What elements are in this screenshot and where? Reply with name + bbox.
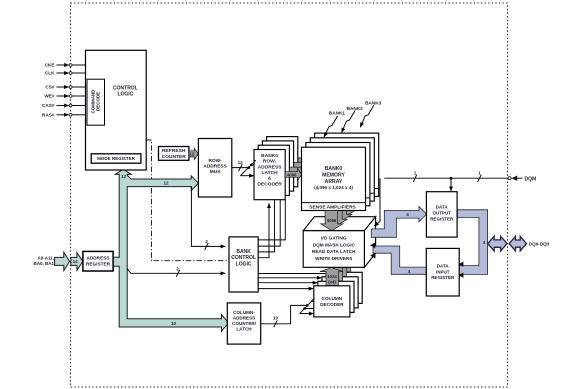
svg-text:READ DATA LATCH: READ DATA LATCH: [312, 249, 356, 254]
svg-text:WRITE DRIVERS: WRITE DRIVERS: [315, 256, 352, 261]
svg-text:SENSE AMPLIFIERS: SENSE AMPLIFIERS: [309, 205, 356, 211]
svg-text:4: 4: [406, 212, 409, 217]
svg-text:DATA: DATA: [437, 264, 450, 269]
svg-text:LOGIC: LOGIC: [117, 92, 133, 98]
svg-text:DECODE: DECODE: [96, 92, 101, 111]
svg-text:12: 12: [189, 152, 195, 157]
svg-text:BA0, BA1: BA0, BA1: [33, 261, 54, 266]
svg-text:10: 10: [273, 315, 279, 320]
svg-text:4: 4: [408, 269, 411, 274]
svg-text:BANK0: BANK0: [325, 166, 343, 172]
svg-text:BANK0: BANK0: [261, 153, 278, 159]
svg-text:CAS#: CAS#: [42, 103, 55, 108]
svg-text:COUNTER: COUNTER: [162, 154, 187, 160]
svg-text:LOGIC: LOGIC: [236, 261, 252, 267]
svg-text:ADDRESS: ADDRESS: [233, 316, 255, 321]
svg-text:BANK1: BANK1: [329, 111, 346, 116]
svg-text:12: 12: [121, 174, 127, 179]
svg-text:CKE: CKE: [45, 63, 55, 68]
svg-text:CS#: CS#: [45, 85, 55, 90]
svg-text:DQM: DQM: [525, 176, 537, 182]
svg-text:OUTPUT: OUTPUT: [432, 211, 451, 216]
svg-text:REGISTER: REGISTER: [86, 262, 111, 267]
svg-text:COMMAND: COMMAND: [90, 89, 95, 114]
svg-text:ADDRESS: ADDRESS: [203, 163, 227, 169]
svg-text:ARRAY: ARRAY: [325, 179, 343, 185]
svg-text:4: 4: [483, 240, 486, 245]
svg-text:RAS#: RAS#: [42, 113, 55, 118]
svg-text:&: &: [268, 176, 272, 182]
svg-text:4096: 4096: [287, 173, 297, 178]
svg-text:COLUMN: COLUMN: [322, 296, 343, 301]
svg-text:COUNTER/: COUNTER/: [232, 321, 257, 326]
svg-text:BANK2: BANK2: [347, 106, 364, 111]
svg-text:CLK: CLK: [45, 71, 55, 76]
svg-text:COLUMN-: COLUMN-: [233, 310, 255, 315]
svg-text:LATCH: LATCH: [236, 327, 252, 332]
svg-text:REGISTER: REGISTER: [431, 275, 455, 280]
svg-text:DQ0-DQ3: DQ0-DQ3: [529, 241, 550, 246]
svg-text:DATA: DATA: [436, 205, 449, 210]
svg-text:INPUT: INPUT: [436, 269, 450, 274]
svg-text:LATCH: LATCH: [261, 170, 278, 176]
svg-text:BANK3: BANK3: [365, 101, 382, 106]
svg-text:ADDRESS: ADDRESS: [87, 255, 110, 260]
svg-text:ROW-: ROW-: [208, 158, 222, 164]
svg-text:12: 12: [163, 181, 169, 186]
svg-text:4096: 4096: [327, 218, 337, 223]
svg-text:10: 10: [171, 321, 177, 326]
svg-text:14: 14: [73, 259, 79, 264]
svg-text:MEMORY: MEMORY: [322, 173, 345, 179]
svg-text:1: 1: [414, 170, 417, 175]
svg-text:MODE REGISTER: MODE REGISTER: [97, 156, 136, 161]
svg-text:CONTROL: CONTROL: [231, 255, 256, 261]
svg-text:MUX: MUX: [210, 169, 221, 175]
svg-text:REGISTER: REGISTER: [430, 216, 454, 221]
svg-text:I/O GATING: I/O GATING: [321, 236, 347, 241]
svg-text:(x4): (x4): [328, 279, 336, 284]
svg-text:ROW-: ROW-: [263, 159, 277, 165]
svg-text:A0-A11,: A0-A11,: [37, 255, 54, 260]
svg-text:REFRESH: REFRESH: [162, 148, 186, 154]
svg-text:DQM MASK LOGIC: DQM MASK LOGIC: [313, 242, 356, 247]
svg-text:DECODER: DECODER: [320, 302, 344, 307]
svg-text:ADDRESS: ADDRESS: [258, 164, 283, 170]
svg-text:BANK: BANK: [236, 249, 251, 255]
svg-text:DECODER: DECODER: [257, 181, 282, 187]
svg-text:WE#: WE#: [44, 94, 55, 99]
svg-text:(4,096 x 1,024 x 4): (4,096 x 1,024 x 4): [314, 185, 353, 190]
